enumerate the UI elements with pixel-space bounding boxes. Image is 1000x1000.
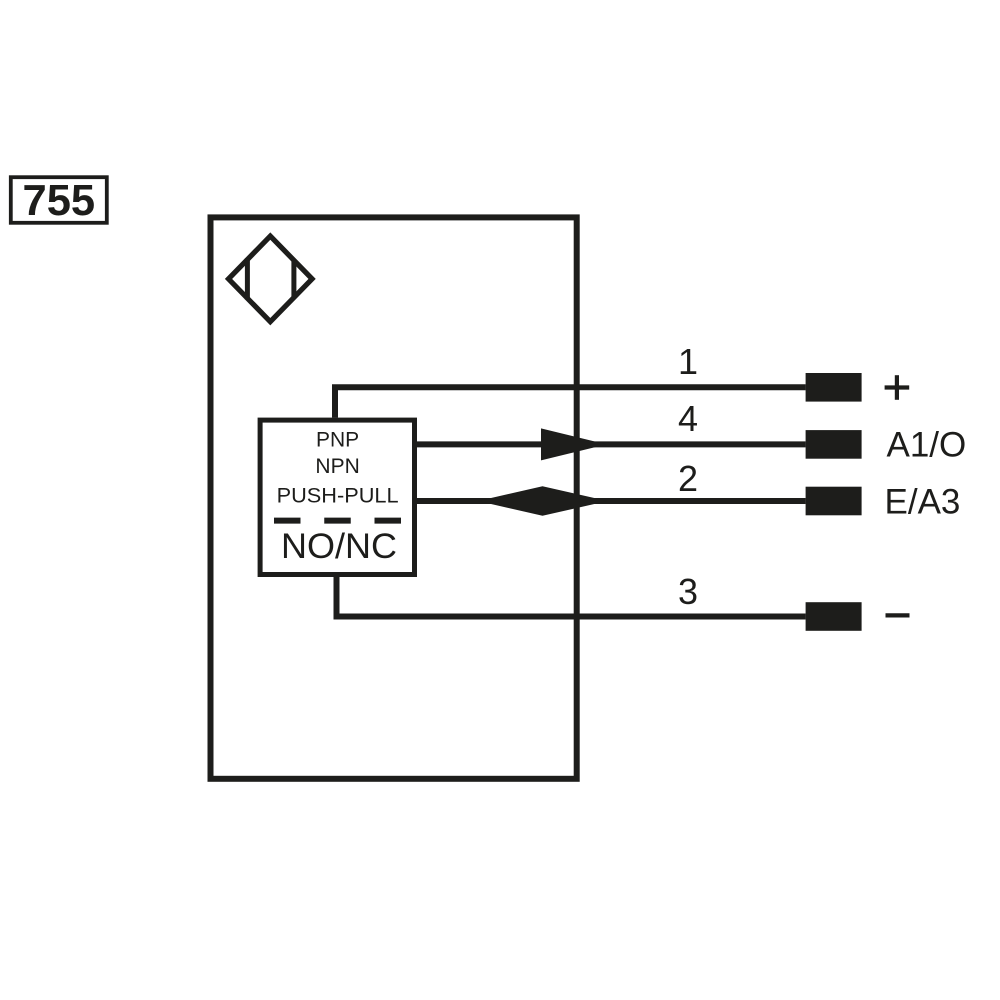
label + (positive supply) — [885, 375, 910, 400]
svg-text:A1/O: A1/O — [887, 426, 967, 465]
svg-text:PNP: PNP — [316, 429, 359, 452]
output stage box — [260, 420, 414, 574]
proximity sensor symbol (diamond) — [229, 236, 313, 322]
svg-text:2: 2 — [678, 458, 698, 499]
wire 3 (supply -) — [337, 577, 806, 617]
wire 1 (supply +) — [335, 387, 806, 417]
svg-text:1: 1 — [678, 341, 698, 382]
wire 4 (output A1/O) — [417, 441, 806, 447]
label - (negative supply) — [886, 613, 910, 617]
bidirectional diamond — [478, 486, 608, 516]
terminal 1 — [806, 373, 862, 402]
svg-text:NPN: NPN — [315, 455, 359, 478]
terminal 2 — [806, 487, 862, 516]
dashed separator line — [274, 518, 401, 524]
svg-text:4: 4 — [678, 398, 698, 439]
svg-text:755: 755 — [23, 177, 96, 225]
wire 2 (input/output E/A3) — [417, 498, 806, 504]
arrow (output direction) — [541, 428, 607, 460]
svg-text:PUSH-PULL: PUSH-PULL — [277, 485, 399, 508]
terminal 4 — [806, 430, 862, 459]
svg-text:3: 3 — [678, 571, 698, 612]
svg-text:E/A3: E/A3 — [885, 482, 961, 521]
sensor body outline — [211, 217, 577, 778]
svg-text:NO/NC: NO/NC — [281, 527, 397, 566]
terminal 3 — [806, 602, 862, 631]
figure number box 755 — [11, 177, 107, 225]
